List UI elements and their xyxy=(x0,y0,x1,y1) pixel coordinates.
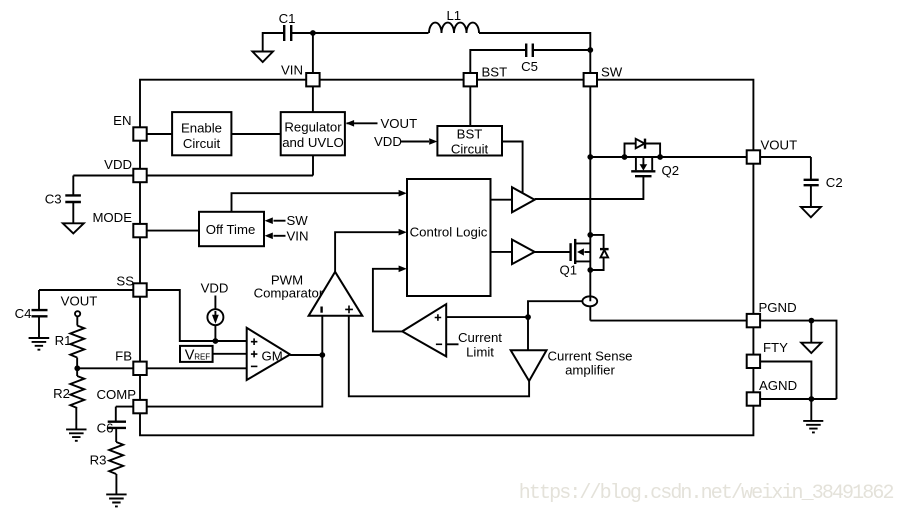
svg-text:https://blog.csdn.net/weixin_3: https://blog.csdn.net/weixin_38491862 xyxy=(519,482,894,505)
svg-text:R2: R2 xyxy=(53,386,70,401)
svg-text:VOUT: VOUT xyxy=(61,294,98,309)
svg-text:BST: BST xyxy=(457,127,483,142)
svg-text:C1: C1 xyxy=(279,11,296,26)
svg-text:C6: C6 xyxy=(97,421,114,436)
svg-text:SS: SS xyxy=(116,274,134,289)
svg-text:MODE: MODE xyxy=(92,210,132,225)
svg-text:COMP: COMP xyxy=(96,387,136,402)
svg-text:and UVLO: and UVLO xyxy=(282,135,344,150)
svg-text:VIN: VIN xyxy=(287,229,309,244)
svg-text:AGND: AGND xyxy=(759,378,797,393)
svg-text:SW: SW xyxy=(601,65,623,80)
svg-text:VOUT: VOUT xyxy=(761,138,798,153)
svg-text:FTY: FTY xyxy=(763,340,788,355)
svg-text:R3: R3 xyxy=(90,453,107,468)
svg-text:GM: GM xyxy=(262,349,283,364)
svg-text:C2: C2 xyxy=(826,175,843,190)
svg-text:PGND: PGND xyxy=(759,300,797,315)
svg-text:Circuit: Circuit xyxy=(183,136,221,151)
svg-text:FB: FB xyxy=(115,349,132,364)
svg-text:V: V xyxy=(185,348,195,364)
svg-text:SW: SW xyxy=(287,213,309,228)
svg-text:C5: C5 xyxy=(521,59,538,74)
svg-text:C4: C4 xyxy=(15,306,32,321)
svg-text:Off Time: Off Time xyxy=(206,222,256,237)
svg-text:C3: C3 xyxy=(45,192,62,207)
svg-text:Comparator: Comparator xyxy=(254,286,324,301)
svg-text:VIN: VIN xyxy=(281,63,303,78)
svg-text:REF: REF xyxy=(194,353,210,362)
svg-text:amplifier: amplifier xyxy=(565,363,615,378)
svg-text:Enable: Enable xyxy=(181,121,222,136)
svg-text:Regulator: Regulator xyxy=(284,120,342,135)
svg-text:EN: EN xyxy=(113,113,131,128)
svg-text:L1: L1 xyxy=(446,8,461,23)
svg-text:BST: BST xyxy=(482,65,508,80)
svg-text:VDD: VDD xyxy=(374,134,402,149)
svg-text:VOUT: VOUT xyxy=(381,116,418,131)
svg-text:Q1: Q1 xyxy=(560,263,578,278)
svg-text:Limit: Limit xyxy=(466,345,494,360)
svg-text:VDD: VDD xyxy=(104,157,132,172)
svg-text:Current Sense: Current Sense xyxy=(547,349,632,364)
svg-text:Circuit: Circuit xyxy=(451,142,489,157)
svg-text:Current: Current xyxy=(458,330,502,345)
svg-text:VDD: VDD xyxy=(201,281,229,296)
svg-text:R1: R1 xyxy=(55,333,72,348)
svg-text:Q2: Q2 xyxy=(662,163,680,178)
svg-text:Control Logic: Control Logic xyxy=(410,225,488,240)
